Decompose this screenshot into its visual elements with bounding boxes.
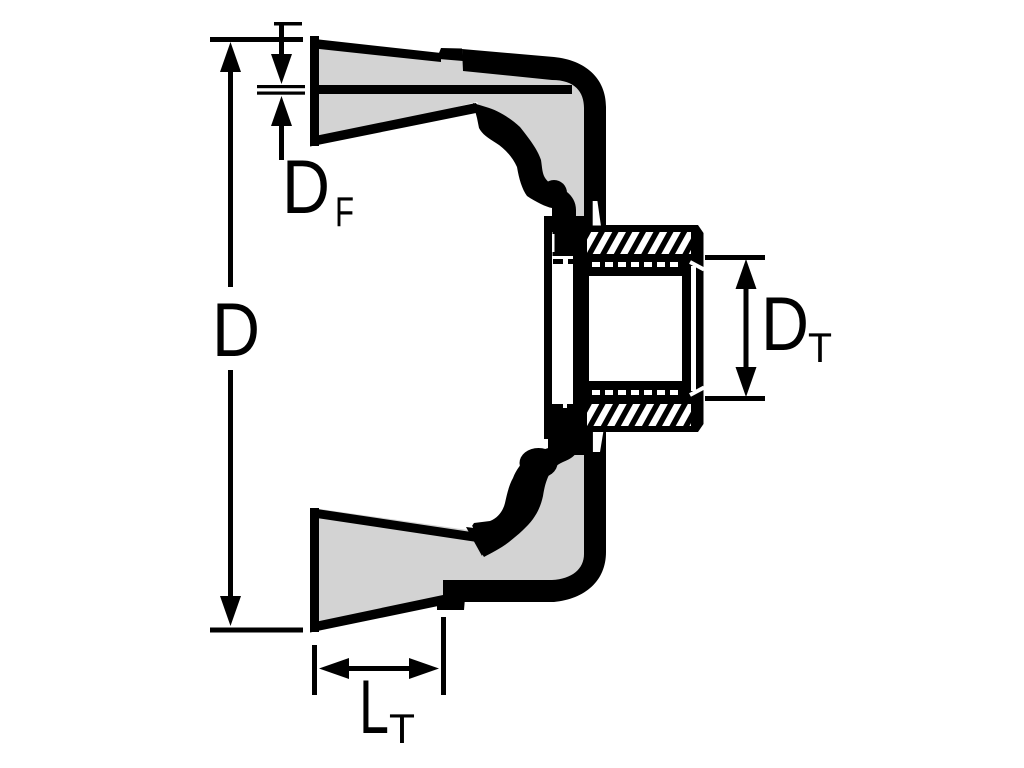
DIMENSION DF: lower vertical line <box>279 120 284 160</box>
white dash row top (thread line in nut) <box>592 262 678 267</box>
notch tab on top edge <box>438 48 463 61</box>
black dashes in gap strip (bottom thread stud) <box>552 404 578 410</box>
bottom cup wall band (vertical + corner + horizontal) <box>443 432 606 602</box>
top knob bulge <box>541 180 567 206</box>
top stem <box>553 206 576 256</box>
nut bottom hatch band <box>587 404 691 426</box>
DIMENSION LT: right arrowhead <box>409 658 439 679</box>
bottom knob bulge <box>520 448 558 478</box>
thin white sliver between back wall and stem (top) <box>552 234 555 252</box>
DIMENSION LT: left tick <box>312 645 317 695</box>
white wedge bottom <box>593 432 603 452</box>
bottom tab notch <box>437 598 465 610</box>
DIMENSION DF: double reference lines <box>257 85 305 88</box>
top cup wall band (horizontal + corner + vertical) <box>462 49 606 232</box>
DIMENSION DT: top arrowhead <box>736 259 757 289</box>
nut right white strip <box>691 266 696 391</box>
DIMENSION DT: vertical line <box>744 270 749 386</box>
DIMENSION D: bottom arrowhead <box>220 596 241 626</box>
bottom trapezoid outline: left edge <box>310 508 319 632</box>
DIMENSION D: vertical line upper part <box>228 60 233 287</box>
nut top hatch band <box>587 232 691 254</box>
top S-band (inner wall from bristle tip to stem) <box>473 103 576 232</box>
DIMENSION DT: bottom arrowhead <box>736 367 757 397</box>
svg-text:D: D <box>282 145 330 230</box>
DIMENSION LT: left arrowhead <box>319 658 349 679</box>
bottom trapezoid outline: top edge <box>310 508 478 542</box>
bottom tip wedge <box>466 527 490 556</box>
black dashes in gap strip (top thread stud) <box>553 259 578 264</box>
svg-text:L: L <box>359 665 389 750</box>
DIMENSION D: top extension line <box>210 37 303 42</box>
middle line of top tuft <box>310 85 572 94</box>
bottom trapezoid outline: bottom edge <box>310 595 443 633</box>
svg-text:D: D <box>761 282 809 367</box>
DIMENSION DF: lower arrowhead (up) <box>271 96 292 126</box>
top junction blob (stem into nut) <box>548 216 606 232</box>
white chamfer diagonal top-right <box>690 262 704 270</box>
DIMENSION DT: bottom tick <box>705 396 765 401</box>
nut bore interior <box>589 276 682 381</box>
DIMENSION D: vertical line lower part <box>228 370 233 605</box>
white wedge top (between stem and wall) <box>593 201 601 226</box>
bottom junction blob <box>548 432 606 452</box>
top trapezoid outline: top edge <box>310 39 441 63</box>
DIMENSION DF: upper arrowhead (down) <box>271 54 292 84</box>
DIMENSION LT: right tick <box>441 617 446 695</box>
DIMENSION D: bottom extension line <box>210 628 303 633</box>
bottom S-band <box>472 408 577 557</box>
back wall of cup (vertical plate edge) <box>544 216 552 439</box>
nut silhouette with chamfered right corners <box>573 225 704 432</box>
svg-text:D: D <box>212 288 260 373</box>
DIMENSION DF: upper vertical line <box>279 22 284 62</box>
DIMENSION DF: top tick <box>274 22 302 26</box>
DIMENSION LT: horizontal line <box>340 666 420 671</box>
DIMENSION D: top arrowhead <box>220 42 241 72</box>
svg-text:F: F <box>335 188 354 235</box>
bottom stem <box>555 408 586 455</box>
white chamfer diagonal bottom-right <box>690 388 704 396</box>
top trapezoid outline: bottom edge to tip <box>310 103 481 147</box>
top trapezoid outline: left edge <box>310 36 319 146</box>
DIMENSION DT: top tick <box>705 255 765 260</box>
white dash row bottom (thread line in nut) <box>592 390 678 395</box>
svg-text:T: T <box>389 705 415 752</box>
svg-text:T: T <box>808 324 832 371</box>
gray fill: top bristle tuft and upper cup interior <box>313 43 592 230</box>
gray fill: bottom bristle tuft and lower cup interior <box>313 412 586 631</box>
